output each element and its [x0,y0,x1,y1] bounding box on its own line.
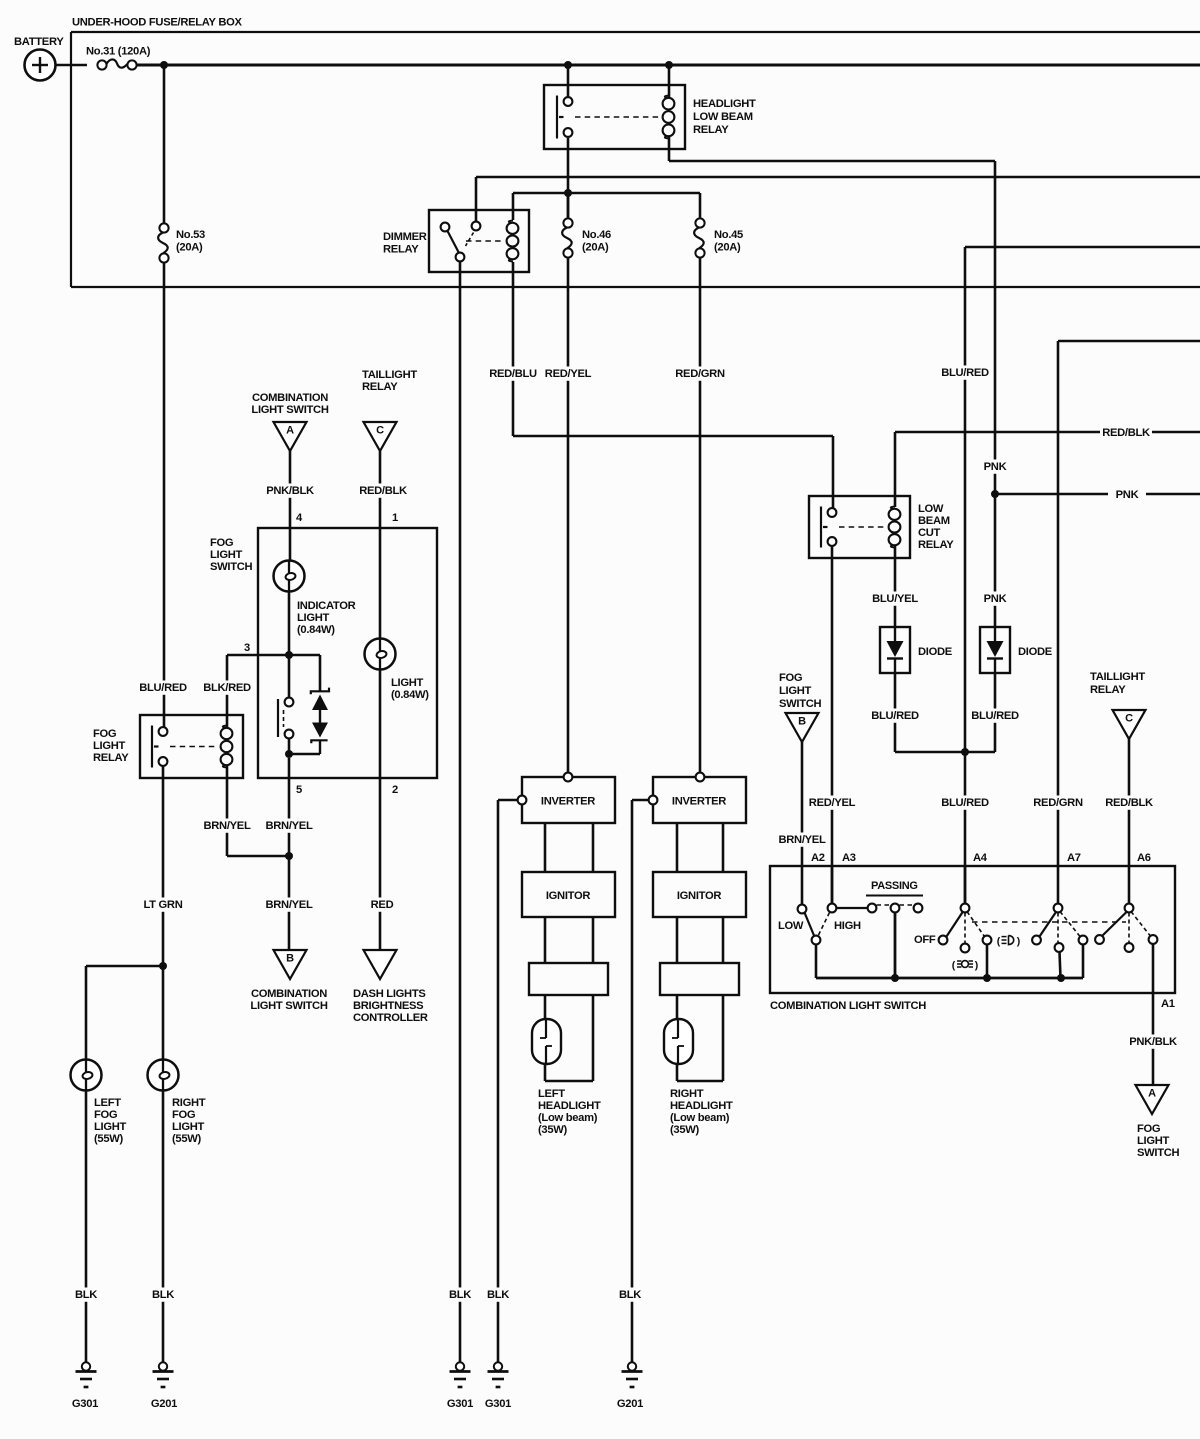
svg-text:SWITCH: SWITCH [1137,1147,1180,1159]
svg-text:TAILLIGHT: TAILLIGHT [362,369,417,381]
svg-text:(20A): (20A) [582,242,609,254]
svg-text:LEFT: LEFT [94,1097,121,1109]
svg-text:PNK: PNK [984,593,1007,605]
svg-text:C: C [1125,713,1133,725]
svg-text:RED/BLU: RED/BLU [489,368,537,380]
svg-text:(Low beam): (Low beam) [670,1112,730,1124]
svg-text:LEFT: LEFT [538,1088,565,1100]
svg-text:RELAY: RELAY [93,752,129,764]
svg-text:CUT: CUT [918,527,941,539]
svg-text:TAILLIGHT: TAILLIGHT [1090,671,1145,683]
svg-text:RELAY: RELAY [1090,684,1126,696]
svg-text:No.46: No.46 [582,229,611,241]
svg-text:RELAY: RELAY [383,244,419,256]
svg-text:LOW BEAM: LOW BEAM [693,111,753,123]
svg-text:LIGHT: LIGHT [172,1121,205,1133]
svg-text:LIGHT: LIGHT [297,612,330,624]
svg-text:LIGHT: LIGHT [93,740,126,752]
svg-text:BLU/RED: BLU/RED [941,797,989,809]
svg-text:HIGH: HIGH [834,920,861,932]
svg-text:PNK: PNK [1116,489,1139,501]
svg-text:1: 1 [392,512,398,524]
svg-text:A3: A3 [842,852,856,864]
svg-text:RELAY: RELAY [362,381,398,393]
svg-text:INVERTER: INVERTER [672,796,726,808]
svg-text:BEAM: BEAM [918,515,950,527]
svg-text:LT GRN: LT GRN [143,899,182,911]
svg-text:PNK/BLK: PNK/BLK [266,485,314,497]
svg-text:HEADLIGHT: HEADLIGHT [693,98,756,110]
svg-text:IGNITOR: IGNITOR [677,890,722,902]
svg-text:BRN/YEL: BRN/YEL [265,820,312,832]
svg-text:RIGHT: RIGHT [172,1097,206,1109]
svg-text:RED/GRN: RED/GRN [675,368,725,380]
svg-text:A: A [286,425,294,437]
svg-text:UNDER-HOOD FUSE/RELAY BOX: UNDER-HOOD FUSE/RELAY BOX [72,17,242,29]
svg-text:CONTROLLER: CONTROLLER [353,1012,428,1024]
svg-text:(: ( [997,936,1001,948]
svg-text:SWITCH: SWITCH [779,698,822,710]
svg-text:DASH LIGHTS: DASH LIGHTS [353,988,426,1000]
svg-text:BATTERY: BATTERY [14,36,64,48]
svg-text:FOG: FOG [779,672,803,684]
svg-text:(55W): (55W) [172,1133,202,1145]
svg-text:RELAY: RELAY [693,124,729,136]
svg-text:(0.84W): (0.84W) [297,624,335,636]
svg-text:RED: RED [371,899,394,911]
svg-text:RED/BLK: RED/BLK [359,485,407,497]
svg-text:OFF: OFF [914,934,936,946]
svg-text:HEADLIGHT: HEADLIGHT [538,1100,601,1112]
svg-text:COMBINATION LIGHT SWITCH: COMBINATION LIGHT SWITCH [770,1000,926,1012]
svg-text:BLU/RED: BLU/RED [871,710,919,722]
svg-text:LIGHT SWITCH: LIGHT SWITCH [250,1000,327,1012]
svg-text:DIODE: DIODE [1018,646,1053,658]
svg-text:DIODE: DIODE [918,646,953,658]
svg-text:G301: G301 [447,1398,473,1410]
svg-text:BRIGHTNESS: BRIGHTNESS [353,1000,424,1012]
svg-text:FOG: FOG [93,728,117,740]
svg-text:5: 5 [296,784,302,796]
svg-text:LIGHT: LIGHT [779,685,812,697]
svg-text:BLU/RED: BLU/RED [971,710,1019,722]
svg-text:LOW: LOW [918,503,944,515]
svg-text:BRN/YEL: BRN/YEL [265,899,312,911]
svg-text:LIGHT: LIGHT [391,677,424,689]
svg-text:(35W): (35W) [538,1124,568,1136]
svg-text:LIGHT SWITCH: LIGHT SWITCH [251,404,328,416]
svg-text:RED/BLK: RED/BLK [1105,797,1153,809]
svg-text:BLK/RED: BLK/RED [203,682,251,694]
svg-text:BLU/RED: BLU/RED [139,682,187,694]
svg-text:No.31 (120A): No.31 (120A) [86,46,151,58]
svg-text:BRN/YEL: BRN/YEL [778,834,825,846]
svg-text:A7: A7 [1067,852,1081,864]
svg-text:BRN/YEL: BRN/YEL [203,820,250,832]
svg-text:IGNITOR: IGNITOR [546,890,591,902]
svg-text:A: A [1148,1088,1156,1100]
svg-text:(Low beam): (Low beam) [538,1112,598,1124]
svg-text:C: C [376,425,384,437]
svg-text:FOG: FOG [94,1109,118,1121]
svg-text:G201: G201 [151,1398,177,1410]
svg-text:RIGHT: RIGHT [670,1088,704,1100]
svg-text:LIGHT: LIGHT [1137,1135,1170,1147]
svg-text:BLU/RED: BLU/RED [941,367,989,379]
svg-text:COMBINATION: COMBINATION [251,988,327,1000]
svg-text:INVERTER: INVERTER [541,796,595,808]
svg-text:): ) [1017,936,1021,948]
svg-text:No.45: No.45 [714,229,743,241]
svg-text:FOG: FOG [172,1109,196,1121]
svg-text:G301: G301 [72,1398,98,1410]
svg-text:LOW: LOW [778,920,804,932]
svg-text:BLK: BLK [487,1289,509,1301]
svg-text:3: 3 [244,642,250,654]
svg-text:RED/BLK: RED/BLK [1102,427,1150,439]
svg-text:2: 2 [392,784,398,796]
svg-text:SWITCH: SWITCH [210,561,253,573]
svg-text:RED/YEL: RED/YEL [809,797,856,809]
svg-text:G301: G301 [485,1398,511,1410]
svg-text:LIGHT: LIGHT [94,1121,127,1133]
svg-text:BLU/YEL: BLU/YEL [872,593,918,605]
svg-text:RED/GRN: RED/GRN [1033,797,1083,809]
svg-text:PNK: PNK [984,461,1007,473]
svg-text:BLK: BLK [152,1289,174,1301]
svg-text:A6: A6 [1137,852,1151,864]
svg-text:): ) [975,960,979,972]
svg-text:FOG: FOG [210,537,234,549]
svg-text:A4: A4 [973,852,988,864]
svg-text:BLK: BLK [449,1289,471,1301]
svg-text:(0.84W): (0.84W) [391,689,429,701]
svg-text:B: B [798,716,806,728]
svg-text:PASSING: PASSING [871,880,918,892]
svg-text:B: B [286,953,294,965]
svg-text:FOG: FOG [1137,1123,1161,1135]
svg-text:PNK/BLK: PNK/BLK [1129,1036,1177,1048]
svg-text:(55W): (55W) [94,1133,124,1145]
svg-text:(35W): (35W) [670,1124,700,1136]
svg-text:HEADLIGHT: HEADLIGHT [670,1100,733,1112]
svg-text:COMBINATION: COMBINATION [252,392,328,404]
svg-text:(: ( [952,960,956,972]
svg-text:RELAY: RELAY [918,539,954,551]
svg-text:(20A): (20A) [714,242,741,254]
svg-text:INDICATOR: INDICATOR [297,600,356,612]
svg-text:(20A): (20A) [176,242,203,254]
svg-text:A2: A2 [811,852,825,864]
svg-text:RED/YEL: RED/YEL [545,368,592,380]
svg-text:No.53: No.53 [176,229,205,241]
svg-text:G201: G201 [617,1398,643,1410]
svg-text:A1: A1 [1161,998,1175,1010]
svg-text:LIGHT: LIGHT [210,549,243,561]
svg-text:DIMMER: DIMMER [383,231,427,243]
svg-text:BLK: BLK [75,1289,97,1301]
svg-text:BLK: BLK [619,1289,641,1301]
